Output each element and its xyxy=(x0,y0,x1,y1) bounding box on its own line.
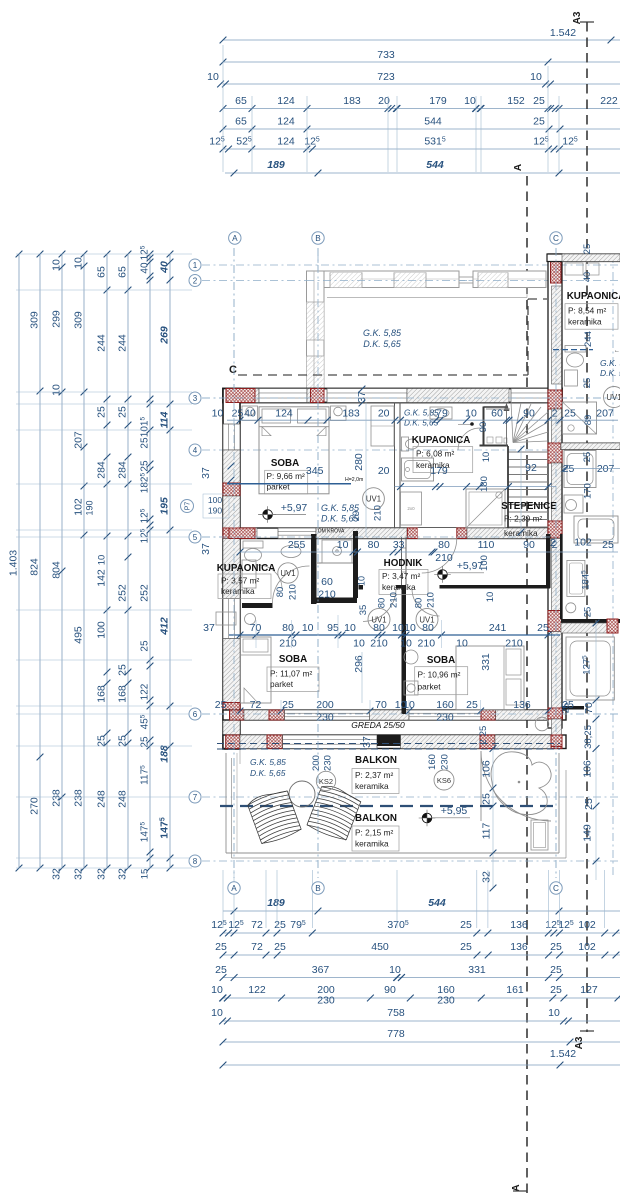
svg-text:188: 188 xyxy=(159,745,171,763)
svg-text:544: 544 xyxy=(428,897,446,909)
upper dash-dot stubs near B axis top xyxy=(317,255,319,271)
svg-text:32: 32 xyxy=(96,868,108,880)
window 183 in top wall xyxy=(327,389,407,403)
svg-text:168: 168 xyxy=(96,685,108,703)
main interior dim line y635 xyxy=(229,634,560,636)
row5 hatch a xyxy=(240,528,257,539)
svg-text:25: 25 xyxy=(460,919,472,931)
black wall stub below shower niche xyxy=(311,598,357,604)
area box hodnik xyxy=(379,570,428,595)
row6b window a xyxy=(283,735,377,749)
right unit toilet xyxy=(565,346,586,353)
svg-text:142: 142 xyxy=(96,569,108,587)
thin wall hodnik upper left (x401-406) xyxy=(401,537,403,585)
svg-text:7: 7 xyxy=(193,793,198,802)
svg-text:65: 65 xyxy=(117,266,129,278)
dim line right unit y350 dashes xyxy=(553,349,593,351)
svg-text:P: 10,96 m²: P: 10,96 m² xyxy=(418,669,461,679)
svg-text:90: 90 xyxy=(523,408,535,420)
svg-text:8: 8 xyxy=(193,857,198,866)
H=2,0m line upper soba xyxy=(227,483,351,485)
svg-text:GREDA 25/50: GREDA 25/50 xyxy=(351,720,405,730)
right unit red col at 607 xyxy=(607,619,618,633)
svg-text:149: 149 xyxy=(582,824,594,842)
nightstand right soba xyxy=(404,681,418,695)
axis 1 horizontal xyxy=(202,264,620,266)
party wall red col mid xyxy=(548,443,562,463)
svg-text:UV1: UV1 xyxy=(366,495,381,504)
svg-text:270: 270 xyxy=(29,797,41,815)
svg-text:25: 25 xyxy=(140,437,151,449)
area box kupaonica right unit xyxy=(565,304,618,330)
svg-text:35: 35 xyxy=(358,605,369,616)
row6 red col 3 xyxy=(481,710,496,720)
black wall niche right vertical xyxy=(353,531,358,598)
axis D vertical right partial xyxy=(612,255,614,878)
svg-text:210: 210 xyxy=(373,505,384,521)
left wall red column row5 xyxy=(223,528,240,539)
svg-text:248: 248 xyxy=(96,790,108,808)
dim line T4 (65 124 183 20 179 10 152 25 222) xyxy=(223,108,620,110)
svg-text:124: 124 xyxy=(277,95,295,107)
svg-text:102: 102 xyxy=(578,941,596,953)
svg-text:37: 37 xyxy=(200,467,212,479)
top wall hatch segment b xyxy=(307,389,311,403)
svg-text:10: 10 xyxy=(465,408,477,420)
svg-text:180: 180 xyxy=(479,476,490,492)
svg-text:136: 136 xyxy=(513,699,531,711)
grid circle 2 xyxy=(189,275,201,287)
svg-text:10: 10 xyxy=(485,592,496,603)
party wall hatch 3 xyxy=(552,463,562,521)
svg-text:160: 160 xyxy=(436,699,454,711)
svg-text:A: A xyxy=(231,884,237,893)
interior dim line y420 top room widths xyxy=(227,419,618,421)
dim line T7 totals (189 544) bold xyxy=(225,172,620,174)
dim line B7 (778) xyxy=(223,1041,620,1043)
upper storey wall band top xyxy=(307,271,460,288)
grid circle 5 xyxy=(189,531,201,543)
svg-text:P: 11,07 m²: P: 11,07 m² xyxy=(270,668,313,678)
left wall hatch 2 xyxy=(223,496,240,528)
svg-text:10: 10 xyxy=(302,622,314,634)
svg-text:←: ← xyxy=(614,348,620,354)
party wall red col row5b xyxy=(548,521,562,538)
svg-text:keramika: keramika xyxy=(221,586,255,596)
svg-text:10: 10 xyxy=(392,622,404,634)
svg-text:136: 136 xyxy=(510,941,528,953)
grid circle A top xyxy=(229,232,241,244)
dim line T2 (733) xyxy=(223,61,620,63)
svg-text:280: 280 xyxy=(353,453,365,471)
svg-text:65: 65 xyxy=(235,116,247,128)
door arc hodnik to right soba xyxy=(412,589,440,617)
svg-text:B: B xyxy=(315,234,321,243)
upper storey inner line xyxy=(327,297,527,299)
svg-text:10: 10 xyxy=(337,539,349,551)
axis 5 horizontal xyxy=(202,536,556,538)
left wall window mid xyxy=(223,599,240,639)
svg-text:25: 25 xyxy=(282,699,294,711)
door jamb black left xyxy=(359,585,364,590)
svg-text:10: 10 xyxy=(344,622,356,634)
left dimension block xyxy=(8,245,193,880)
svg-text:25: 25 xyxy=(215,941,227,953)
svg-text:207: 207 xyxy=(73,431,85,449)
niche small fixtures xyxy=(487,437,493,443)
row6b hatch a xyxy=(240,735,267,749)
svg-text:25: 25 xyxy=(274,941,286,953)
svg-text:5: 5 xyxy=(193,533,198,542)
right unit circle fixture lower xyxy=(535,717,549,731)
top wall hatch segment xyxy=(255,389,259,403)
svg-text:P7: P7 xyxy=(185,502,192,511)
svg-text:210: 210 xyxy=(435,552,453,564)
svg-text:733: 733 xyxy=(377,49,395,61)
right unit shower top xyxy=(563,402,597,434)
svg-text:15: 15 xyxy=(140,869,151,880)
column A3 red xyxy=(226,389,255,403)
svg-text:P: 3,57 m²: P: 3,57 m² xyxy=(221,575,260,585)
stair boundary top xyxy=(486,408,510,410)
svg-text:80: 80 xyxy=(413,598,424,609)
svg-text:P: 2,37 m²: P: 2,37 m² xyxy=(355,770,394,780)
svg-text:25: 25 xyxy=(232,408,244,420)
left block horizontal extension lines xyxy=(16,253,192,255)
party wall hatch 6 xyxy=(552,719,562,735)
svg-text:1.403: 1.403 xyxy=(8,550,20,576)
svg-text:25: 25 xyxy=(478,726,489,737)
svg-text:keramika: keramika xyxy=(568,317,602,327)
svg-text:40: 40 xyxy=(582,272,593,283)
greda dashed beam lines xyxy=(217,743,560,745)
black wall hodnik-left vertical below xyxy=(402,585,407,714)
washing machine bottom left of stepenice xyxy=(401,492,422,525)
left wall hatch 3 xyxy=(223,539,240,599)
svg-text:32: 32 xyxy=(73,868,85,880)
svg-text:189: 189 xyxy=(267,159,285,171)
door arc kupaonica2 from stair hall xyxy=(458,428,480,450)
dim line T1 (1.542) xyxy=(223,39,620,41)
svg-text:412: 412 xyxy=(159,617,171,636)
svg-text:HODNIK: HODNIK xyxy=(384,558,423,569)
svg-text:2: 2 xyxy=(552,408,558,420)
svg-text:244: 244 xyxy=(96,334,108,352)
svg-text:210: 210 xyxy=(426,592,437,608)
svg-text:20: 20 xyxy=(378,408,390,420)
door arc balcony jacuzzi room xyxy=(481,751,551,821)
dim line B1 totals (189 544) bold xyxy=(223,910,620,912)
svg-text:32: 32 xyxy=(51,868,63,880)
svg-text:70: 70 xyxy=(250,622,262,634)
grid circle 6 xyxy=(189,708,201,720)
row6b hatch c xyxy=(495,735,551,749)
svg-text:H=2,0m: H=2,0m xyxy=(345,477,363,483)
svg-text:230: 230 xyxy=(317,995,335,1007)
bed lower-left soba xyxy=(241,637,272,703)
svg-text:804: 804 xyxy=(51,561,63,579)
svg-text:10: 10 xyxy=(73,257,85,269)
bottom dimension block xyxy=(211,870,620,1068)
balcony round table xyxy=(289,781,315,807)
row6 red col 2 xyxy=(269,710,285,720)
svg-text:P: 2,39 m²: P: 2,39 m² xyxy=(504,514,543,524)
dim line T6 (12.5 52.5 124 12.5 531.5 ...) xyxy=(223,148,620,150)
svg-text:244: 244 xyxy=(583,331,594,347)
svg-text:106: 106 xyxy=(481,760,493,778)
svg-text:25: 25 xyxy=(583,607,594,618)
svg-text:keramika: keramika xyxy=(382,582,416,592)
svg-text:B: B xyxy=(315,884,321,893)
axis 7 horizontal xyxy=(202,796,620,798)
black wall right SOBA east xyxy=(560,534,563,619)
svg-text:230: 230 xyxy=(437,995,455,1007)
svg-text:KS2: KS2 xyxy=(319,777,333,786)
svg-text:10: 10 xyxy=(456,638,468,650)
left wall red column row6b xyxy=(223,735,240,749)
svg-text:210: 210 xyxy=(279,638,297,650)
svg-text:100: 100 xyxy=(208,495,222,505)
grid circle C bottom xyxy=(550,882,562,894)
level mark upper soba +5,97 xyxy=(263,510,273,520)
svg-text:+5,95: +5,95 xyxy=(441,805,468,817)
top dimension block xyxy=(207,27,620,176)
extension lines from bottom block up to plan xyxy=(222,870,224,928)
svg-text:2x0: 2x0 xyxy=(407,506,415,511)
row5 red col right xyxy=(548,528,558,539)
row6b hatch b xyxy=(401,735,480,749)
svg-text:40: 40 xyxy=(159,261,171,274)
svg-text:102: 102 xyxy=(73,498,85,516)
svg-text:248: 248 xyxy=(117,790,129,808)
row6b red col right xyxy=(551,735,562,749)
row6 hatch c xyxy=(496,710,548,720)
bed pillows upper xyxy=(262,409,291,423)
svg-text:778: 778 xyxy=(387,1028,405,1040)
svg-text:37: 37 xyxy=(203,622,215,634)
svg-text:309: 309 xyxy=(29,311,41,329)
svg-text:230: 230 xyxy=(316,712,334,724)
svg-text:parket: parket xyxy=(270,679,294,689)
svg-text:10: 10 xyxy=(464,95,476,107)
svg-text:189: 189 xyxy=(267,897,285,909)
svg-text:6: 6 xyxy=(193,710,198,719)
lounge chair right striped xyxy=(306,783,362,842)
nightstand right with lamp xyxy=(331,406,347,421)
left wall hatch 5 xyxy=(223,715,240,736)
svg-text:P: 6,08 m²: P: 6,08 m² xyxy=(416,448,455,458)
axis 6 horizontal xyxy=(202,713,620,715)
svg-text:25: 25 xyxy=(564,408,576,420)
svg-text:10: 10 xyxy=(404,622,416,634)
row5 red col mid1 xyxy=(407,528,417,539)
balcony bench right xyxy=(531,820,548,850)
window 124 in top wall xyxy=(259,389,307,403)
left exterior wall band xyxy=(223,389,240,750)
left dim vertical lines xyxy=(18,254,20,868)
KS6 circle right xyxy=(434,770,454,790)
stair vertical dim line xyxy=(520,446,522,535)
svg-text:136: 136 xyxy=(510,919,528,931)
row6 hatch a xyxy=(244,710,269,720)
svg-text:345: 345 xyxy=(306,465,324,477)
niche shower bottom line xyxy=(317,562,353,564)
svg-text:200: 200 xyxy=(316,699,334,711)
svg-text:210: 210 xyxy=(505,638,523,650)
grid circle P7 rotated xyxy=(181,500,194,513)
party wall vertical between units xyxy=(548,254,562,728)
svg-text:25: 25 xyxy=(561,703,572,714)
row6 red col A xyxy=(230,710,245,720)
row5 interior wall band xyxy=(240,528,558,539)
svg-text:296: 296 xyxy=(353,655,365,673)
svg-text:10: 10 xyxy=(207,71,219,83)
svg-text:KS6: KS6 xyxy=(437,776,451,785)
svg-text:238: 238 xyxy=(73,789,85,807)
toilet kupaonica3 xyxy=(243,541,263,548)
party wall red col top xyxy=(551,257,562,283)
svg-text:33: 33 xyxy=(393,539,405,551)
svg-text:10: 10 xyxy=(389,964,401,976)
svg-text:65: 65 xyxy=(96,266,108,278)
roof eave heavy dashed line xyxy=(220,805,560,807)
black wall hodnik bottom left jamb xyxy=(396,585,406,589)
svg-text:KUPAONICA: KUPAONICA xyxy=(412,435,471,446)
row6 red col right xyxy=(548,710,563,720)
svg-text:79: 79 xyxy=(436,408,448,420)
svg-text:190: 190 xyxy=(85,500,95,515)
party wall red col row6b xyxy=(551,735,562,747)
desk lower-left soba xyxy=(244,688,258,703)
svg-text:A: A xyxy=(232,234,238,243)
svg-text:495: 495 xyxy=(73,626,85,644)
svg-text:25: 25 xyxy=(537,622,549,634)
svg-text:80: 80 xyxy=(377,598,388,609)
svg-text:92: 92 xyxy=(525,462,537,474)
svg-text:25: 25 xyxy=(582,378,593,389)
right unit wall y620 hatch below xyxy=(561,623,607,633)
svg-text:824: 824 xyxy=(29,558,41,576)
right unit counter top right xyxy=(567,560,585,596)
axis 8 horizontal xyxy=(202,860,620,862)
dim line B8 (1.542) xyxy=(223,1064,620,1066)
svg-text:A: A xyxy=(513,164,524,171)
dim line T5 (65 124 544 25) xyxy=(223,128,620,130)
dim line T3 (723) xyxy=(223,83,620,85)
svg-text:10: 10 xyxy=(481,452,492,463)
svg-text:95: 95 xyxy=(327,622,339,634)
svg-text:UV1: UV1 xyxy=(606,393,620,402)
svg-text:25: 25 xyxy=(582,244,593,255)
level mark balcony +5,95 xyxy=(422,813,432,823)
door arc left kupaonica small xyxy=(258,565,282,589)
svg-text:25: 25 xyxy=(215,964,227,976)
axis A vertical xyxy=(233,248,235,878)
right unit cabinet small rects xyxy=(565,263,583,275)
svg-text:367: 367 xyxy=(312,964,330,976)
svg-text:2: 2 xyxy=(550,537,556,549)
svg-text:252: 252 xyxy=(139,584,151,602)
svg-text:4: 4 xyxy=(193,446,198,455)
svg-text:25: 25 xyxy=(602,539,614,551)
party wall red col row6 xyxy=(548,708,562,719)
washer kupaonica3 xyxy=(242,560,256,588)
svg-text:KUPAONICA: KUPAONICA xyxy=(217,563,276,574)
svg-text:25: 25 xyxy=(96,406,108,418)
svg-text:25: 25 xyxy=(117,664,129,676)
axis 3 horizontal xyxy=(202,397,620,399)
section line A3 vertical dashed right xyxy=(586,22,588,1032)
black wall hodnik right vertical xyxy=(546,534,551,588)
svg-text:1.542: 1.542 xyxy=(550,27,576,39)
svg-text:80: 80 xyxy=(422,622,434,634)
grid circle 4 xyxy=(189,444,201,456)
svg-text:70: 70 xyxy=(375,699,387,711)
svg-text:331: 331 xyxy=(468,964,486,976)
svg-text:207: 207 xyxy=(597,463,615,475)
svg-text:D.K. 5,65: D.K. 5,65 xyxy=(250,768,286,778)
svg-text:122: 122 xyxy=(248,984,266,996)
shower niche top with drain xyxy=(322,540,352,563)
level mark hodnik +5,97 xyxy=(438,570,448,580)
column B3 red xyxy=(311,389,325,403)
party wall hatch 2 xyxy=(552,409,562,443)
grid circle C top xyxy=(550,232,562,244)
svg-text:450: 450 xyxy=(371,941,389,953)
svg-text:244: 244 xyxy=(117,334,129,352)
svg-text:210: 210 xyxy=(418,638,436,650)
svg-text:32: 32 xyxy=(117,868,129,880)
svg-text:10: 10 xyxy=(211,1007,223,1019)
row5 red col mid2 xyxy=(457,528,467,539)
svg-text:10: 10 xyxy=(51,384,63,396)
axis C vertical xyxy=(555,248,557,878)
svg-text:25: 25 xyxy=(215,699,227,711)
dim line B4 xyxy=(223,977,620,979)
row6 wall band under rooms xyxy=(223,710,566,720)
left wall red column P7 xyxy=(223,483,240,496)
door dot kupaonica2 xyxy=(470,422,474,426)
svg-text:299: 299 xyxy=(51,310,63,328)
sink pedestal lower xyxy=(216,612,236,625)
svg-text:3: 3 xyxy=(193,394,198,403)
row6b red col A xyxy=(226,735,240,749)
svg-text:179: 179 xyxy=(430,465,448,477)
party wall hatch 4 xyxy=(552,539,562,611)
svg-text:114: 114 xyxy=(159,411,171,428)
grid circle 8 xyxy=(189,855,201,867)
section line A-A vertical dashed xyxy=(526,176,528,1195)
svg-text:723: 723 xyxy=(377,71,395,83)
UV1 circle hodnik left xyxy=(368,608,390,630)
black wall kupaonica3 bottom horizontal xyxy=(242,603,270,608)
svg-text:10: 10 xyxy=(353,638,365,650)
svg-text:90: 90 xyxy=(384,984,396,996)
svg-text:37: 37 xyxy=(361,736,373,748)
svg-text:106: 106 xyxy=(582,760,594,778)
shower stepenice room xyxy=(466,489,505,528)
svg-text:80: 80 xyxy=(438,539,450,551)
left dim ticks xyxy=(16,251,23,258)
svg-text:60: 60 xyxy=(491,408,503,420)
area box soba upper xyxy=(265,470,308,494)
dim line B2 xyxy=(223,932,620,934)
svg-text:170: 170 xyxy=(583,483,594,499)
svg-text:210: 210 xyxy=(389,592,400,608)
svg-text:25: 25 xyxy=(140,460,151,472)
svg-text:BALKON: BALKON xyxy=(355,813,397,824)
right unit top exterior wall xyxy=(547,254,620,262)
